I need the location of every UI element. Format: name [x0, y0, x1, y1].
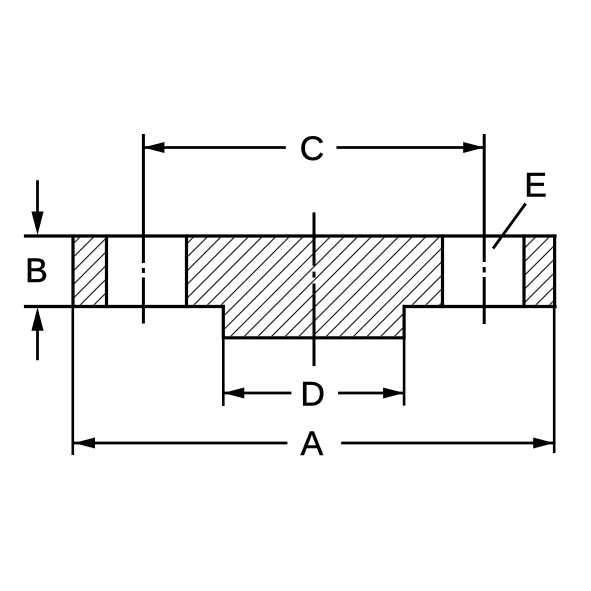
svg-text:D: D	[300, 375, 325, 413]
svg-text:B: B	[25, 252, 48, 290]
svg-text:E: E	[524, 166, 547, 204]
svg-text:A: A	[300, 425, 323, 463]
svg-text:C: C	[300, 130, 325, 168]
